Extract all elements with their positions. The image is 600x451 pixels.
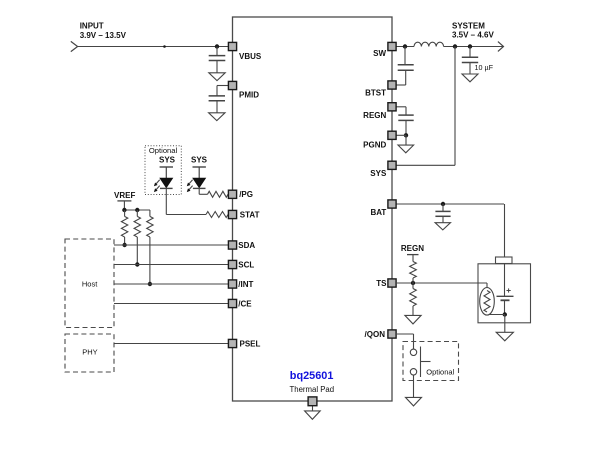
svg-text:SYS: SYS — [370, 169, 387, 178]
svg-text:Thermal Pad: Thermal Pad — [289, 385, 334, 394]
svg-text:/INT: /INT — [238, 280, 253, 289]
svg-text:TS: TS — [376, 279, 387, 288]
svg-text:REGN: REGN — [401, 244, 424, 253]
svg-text:/PG: /PG — [239, 190, 253, 199]
svg-text:10 µF: 10 µF — [475, 63, 494, 72]
svg-text:REGN: REGN — [363, 111, 386, 120]
svg-text:/QON: /QON — [365, 330, 386, 339]
svg-text:VBUS: VBUS — [239, 52, 262, 61]
svg-text:INPUT: INPUT — [80, 22, 104, 31]
svg-text:Host: Host — [82, 279, 98, 288]
svg-text:STAT: STAT — [240, 210, 260, 219]
svg-text:BAT: BAT — [370, 208, 386, 217]
svg-text:PHY: PHY — [82, 348, 97, 357]
svg-text:SYS: SYS — [159, 155, 176, 164]
svg-text:SDA: SDA — [238, 241, 255, 250]
svg-text:SW: SW — [373, 49, 386, 58]
svg-text:/CE: /CE — [238, 299, 252, 308]
svg-text:Optional: Optional — [149, 146, 178, 155]
svg-text:VREF: VREF — [114, 191, 135, 200]
svg-text:Optional: Optional — [426, 368, 454, 377]
svg-text:3.9V – 13.5V: 3.9V – 13.5V — [80, 31, 127, 40]
svg-text:SYSTEM: SYSTEM — [452, 22, 485, 31]
svg-text:SCL: SCL — [238, 260, 254, 269]
svg-text:3.5V – 4.6V: 3.5V – 4.6V — [452, 31, 494, 40]
svg-text:bq25601: bq25601 — [290, 370, 334, 382]
svg-text:BTST: BTST — [365, 88, 386, 97]
svg-text:SYS: SYS — [191, 155, 208, 164]
svg-text:PGND: PGND — [363, 140, 386, 149]
svg-text:PSEL: PSEL — [240, 339, 261, 348]
svg-text:PMID: PMID — [239, 91, 259, 100]
